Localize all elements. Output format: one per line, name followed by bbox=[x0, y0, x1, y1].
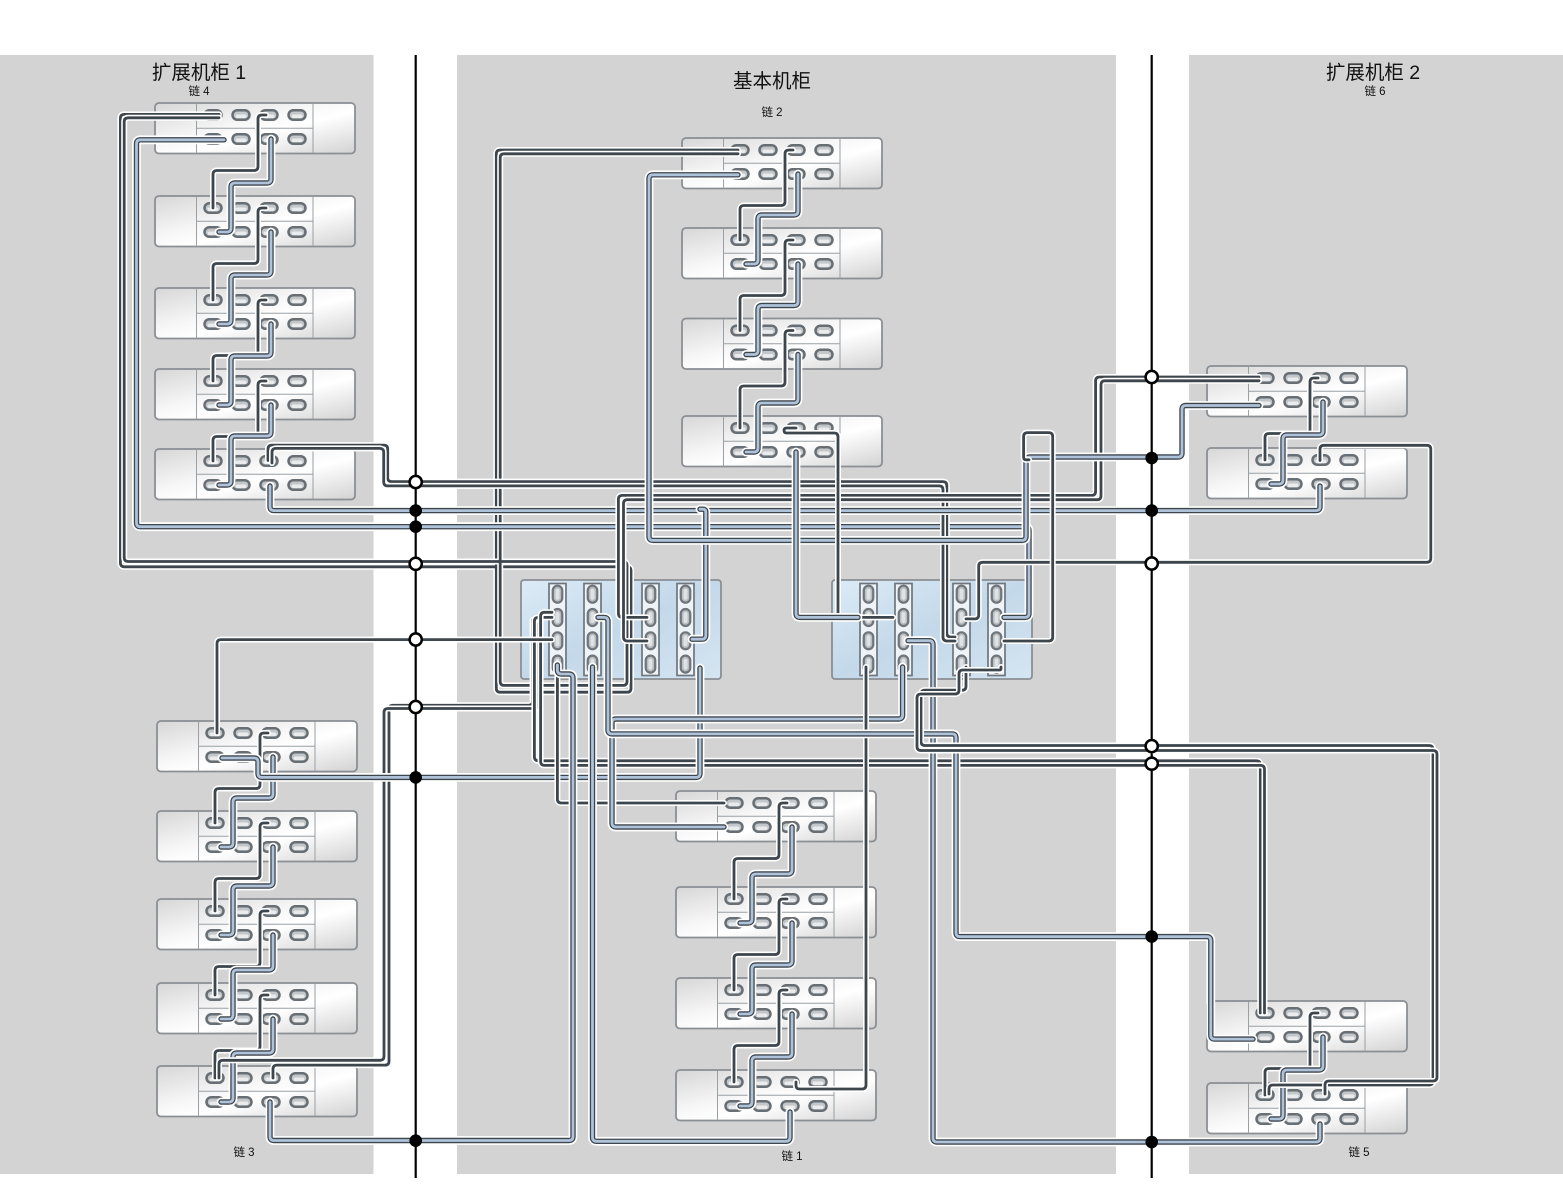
wire M2 IOM1 port2 to M3 IOM1 port0 bbox=[746, 264, 798, 355]
disk shelf R2 bbox=[1207, 448, 1407, 499]
wire C1 slot1 to L10 IOM0 port0 bbox=[219, 624, 538, 1078]
wire L6 IOM0 port2 to L7 IOM0 port0 bbox=[215, 733, 268, 823]
wire L1 IOM1 port2 to L2 IOM1 port0 bbox=[219, 139, 271, 232]
wire M2 IOM0 port2 to M3 IOM0 port0 bbox=[740, 240, 793, 331]
wire L4 IOM1 port2 to L5 IOM1 port0 bbox=[219, 405, 271, 485]
wire C1 slot2 port3 to M8 IOM1 port2 bbox=[593, 667, 791, 1141]
svg-text:链 2: 链 2 bbox=[761, 105, 782, 119]
wire L1 IOM1 port0 to C2 slot4 port1 bbox=[137, 140, 1030, 618]
wire C1 slot1 port2 to L6 IOM0 port0 bbox=[217, 640, 552, 733]
C1 HBA slot 2 bbox=[584, 584, 601, 676]
wire L5 IOM1 port2 to R2 IOM1 port2 bbox=[270, 486, 1320, 511]
wire M3 IOM0 port2 to M4 IOM0 port0 bbox=[740, 331, 793, 429]
wire M1 IOM0 port2 to M2 IOM0 port0 bbox=[740, 150, 793, 240]
wire C1 slot4 port3 to L6 IOM1 port0 bbox=[222, 668, 700, 777]
wire M1 IOM0 port0 to L1 IOM0 port0 (inner) bbox=[124, 118, 738, 686]
C2 HBA slot 1 bbox=[860, 584, 877, 676]
wire C1 slot1 port1 to R3 IOM0 port0 (b) bbox=[541, 612, 1265, 1013]
disk shelf L9 bbox=[157, 983, 357, 1034]
wire C2 slot1 port3 to M8 IOM0 port2 bbox=[796, 667, 866, 1089]
wire R3 IOM1 port2 to R4 IOM1 port0 bbox=[1271, 1037, 1323, 1119]
crossing circle right line y746 bbox=[1146, 740, 1158, 752]
controller C2 bbox=[832, 580, 1032, 679]
junction dot left line y510 bbox=[409, 504, 422, 517]
junction dot right line y510 bbox=[1145, 504, 1158, 517]
wire L9 IOM1 port2 to L10 IOM1 port0 bbox=[221, 1019, 273, 1102]
svg-text:基本机柜: 基本机柜 bbox=[733, 71, 811, 93]
C1 HBA slot 1 bbox=[549, 584, 566, 676]
wire C2 slot2 port2 to R4 IOM1 port2 bbox=[908, 641, 1320, 1142]
wire C1 slot1 port3 to M5 IOM0 port0 bbox=[557, 667, 724, 803]
disk shelf R1 bbox=[1207, 366, 1407, 417]
controller C1 bbox=[521, 580, 721, 679]
wire L2 IOM0 port2 to L3 IOM0 port0 bbox=[213, 208, 266, 300]
wire L3 IOM0 port2 to L4 IOM0 port0 bbox=[213, 300, 266, 381]
rack panel: base cabinet bbox=[457, 55, 1116, 1174]
wire L6 IOM1 port2 to L7 IOM1 port0 bbox=[221, 757, 273, 847]
svg-text:链 3: 链 3 bbox=[233, 1145, 254, 1159]
crossing circle right line y563 bbox=[1146, 557, 1158, 569]
wire C1 slot3 port2 to R1 IOM0 port0 (b) bbox=[624, 381, 1260, 641]
disk shelf L7 bbox=[157, 811, 357, 862]
wire L8 IOM1 port2 to L9 IOM1 port0 bbox=[221, 935, 273, 1019]
wire C1 slot2 port1 to R3 IOM1 port0 bbox=[598, 617, 1253, 1039]
disk shelf M4 bbox=[682, 416, 882, 467]
wire L1 IOM0 port2 to L2 IOM0 port0 bbox=[213, 115, 266, 208]
wire L7 IOM0 port2 to L8 IOM0 port0 bbox=[215, 823, 268, 911]
disk shelf M1 bbox=[682, 138, 882, 189]
wire M4 IOM0 port2 to C2 slot2 port1 bbox=[784, 428, 893, 617]
svg-text:扩展机柜 2: 扩展机柜 2 bbox=[1326, 62, 1420, 84]
junction dot left line y1140 bbox=[409, 1134, 422, 1147]
disk shelf M7 bbox=[676, 978, 876, 1029]
disk shelf M2 bbox=[682, 228, 882, 279]
wire M5 IOM0 port2 to M6 IOM0 port0 bbox=[734, 803, 787, 899]
wire C1 slot1 to L10 IOM0 port2 bbox=[273, 620, 533, 1078]
wire C1 slot3 port1 to R1 IOM0 port0 (a) bbox=[618, 377, 1259, 617]
wire M1 IOM1 port2 to M2 IOM1 port0 bbox=[746, 174, 798, 264]
wire L9 IOM0 port2 to L10 IOM0 port0 bbox=[215, 995, 268, 1078]
wire R3 IOM0 port2 to R4 IOM0 port0 bbox=[1265, 1013, 1318, 1095]
disk shelf L6 bbox=[157, 721, 357, 772]
wire C2 slot4 port2 riser detail bbox=[1004, 433, 1053, 641]
disk shelf M8 bbox=[676, 1070, 876, 1121]
C2 HBA slot 2 bbox=[895, 584, 912, 676]
junction dot right line y936 bbox=[1145, 930, 1158, 943]
disk shelf M5 bbox=[676, 791, 876, 842]
disk shelf L2 bbox=[155, 196, 355, 247]
disk shelf R4 bbox=[1207, 1083, 1407, 1134]
C2 HBA slot 4 bbox=[988, 584, 1005, 676]
disk shelf L8 bbox=[157, 899, 357, 950]
disk shelf L4 bbox=[155, 369, 355, 420]
wire L2 IOM1 port2 to L3 IOM1 port0 bbox=[219, 232, 271, 324]
wire M6 IOM1 port2 to M7 IOM1 port0 bbox=[740, 923, 792, 1014]
wire M5 IOM1 port2 to M6 IOM1 port0 bbox=[740, 827, 792, 923]
disk shelf L1 bbox=[155, 103, 355, 154]
wire R2 IOM0 port2 to C2 slot3 port1 bbox=[966, 445, 1431, 619]
wire M1 IOM0 port0 to L1 IOM0 port0 (outer) bbox=[120, 114, 738, 692]
wire M6 IOM0 port2 to M7 IOM0 port0 bbox=[734, 899, 787, 990]
disk shelf L3 bbox=[155, 288, 355, 339]
svg-text:扩展机柜 1: 扩展机柜 1 bbox=[152, 62, 246, 84]
wire C2 slot4 port3 to R4 IOM0 port2 bbox=[917, 667, 1437, 1094]
C2 HBA slot 3 bbox=[953, 584, 970, 676]
wire M7 IOM1 port2 to M8 IOM1 port0 bbox=[740, 1014, 792, 1106]
wire L4 IOM0 port2 to L5 IOM0 port0 bbox=[213, 381, 266, 461]
crossing circle right line y764 bbox=[1146, 758, 1158, 770]
crossing circle left line y482 bbox=[410, 476, 422, 488]
disk shelf L5 bbox=[155, 449, 355, 500]
rack panel: expansion cabinet 1 bbox=[0, 55, 374, 1174]
disk shelf M6 bbox=[676, 887, 876, 938]
junction dot left line y777 bbox=[409, 771, 422, 784]
crossing circle right line y377 bbox=[1146, 371, 1158, 383]
wire L7 IOM1 port2 to L8 IOM1 port0 bbox=[221, 847, 273, 935]
svg-text:链 6: 链 6 bbox=[1364, 84, 1385, 98]
junction dot left line y526 bbox=[409, 520, 422, 533]
crossing circle left line y564 bbox=[410, 558, 422, 570]
rack boundary line right bbox=[1151, 55, 1153, 1178]
wire R1 IOM1 port2 to R2 IOM1 port0 bbox=[1271, 402, 1323, 484]
disk shelf R3 bbox=[1207, 1001, 1407, 1052]
disk shelf M3 bbox=[682, 319, 882, 370]
wire C2 slot3 port3 to R4 IOM0 port0 bbox=[921, 667, 1433, 1094]
wire M3 IOM1 port2 to M4 IOM1 port0 bbox=[746, 355, 798, 453]
wire bus branch to C1 slot4 port2 bbox=[692, 509, 706, 639]
wire L5 IOM0 port2 to C2 slot3 port2 (a) bbox=[268, 445, 955, 637]
wire M4 IOM1 port2 to C2 slot1 port1 bbox=[796, 452, 858, 617]
crossing circle left line y707 bbox=[410, 701, 422, 713]
wire C2 slot2 port3 to M5 IOM1 port0 bbox=[612, 667, 903, 827]
wire L3 IOM1 port2 to L4 IOM1 port0 bbox=[219, 324, 271, 405]
svg-text:链 5: 链 5 bbox=[1348, 1145, 1369, 1159]
disk shelf L10 bbox=[157, 1066, 357, 1117]
svg-text:链 1: 链 1 bbox=[781, 1149, 802, 1163]
wire L5 IOM0 port2 to C2 slot3 port2 (b) bbox=[272, 448, 955, 641]
C1 HBA slot 4 bbox=[677, 584, 694, 676]
wire L8 IOM0 port2 to L9 IOM0 port0 bbox=[215, 911, 268, 995]
wire M1 IOM1 port0 to R1 IOM1 port0 bbox=[649, 175, 1259, 541]
rack panel: expansion cabinet 2 bbox=[1189, 55, 1563, 1174]
C1 HBA slot 3 bbox=[642, 584, 659, 676]
wire M7 IOM0 port2 to M8 IOM0 port0 bbox=[734, 990, 787, 1082]
junction dot right line y458 bbox=[1145, 452, 1158, 465]
rack boundary line left bbox=[415, 55, 417, 1178]
wire C1 slot1 port1 to R3 IOM0 port0 (a) bbox=[534, 617, 1260, 1013]
svg-text:链 4: 链 4 bbox=[188, 84, 210, 98]
junction dot right line y1142 bbox=[1145, 1136, 1158, 1149]
wire C1 to L10 IOM1 port2 bbox=[270, 665, 573, 1141]
wire R1 IOM0 port2 to R2 IOM0 port0 bbox=[1265, 378, 1318, 460]
crossing circle left line y639 bbox=[410, 633, 422, 645]
